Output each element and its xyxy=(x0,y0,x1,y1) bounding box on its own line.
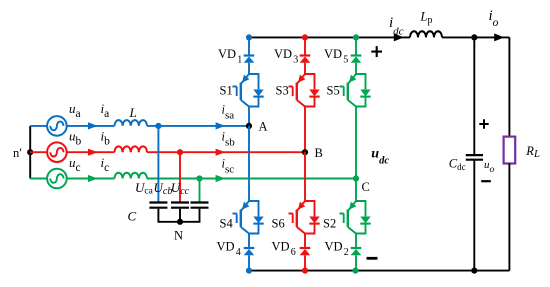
svg-text:VD2: VD2 xyxy=(325,240,349,259)
label - (u_o) xyxy=(481,180,491,182)
inductor L (phase b) xyxy=(115,146,147,152)
wire: leg3 upper xyxy=(355,37,357,74)
svg-text:RL: RL xyxy=(525,144,540,160)
arrow i_o xyxy=(494,33,504,41)
svg-text:ib: ib xyxy=(101,128,111,147)
diode VD1 xyxy=(244,56,255,63)
wire: C_dc branch lower xyxy=(473,160,475,271)
label + (u_o) xyxy=(479,119,488,128)
arrow i_c xyxy=(88,175,98,182)
svg-text:VD1: VD1 xyxy=(218,47,242,66)
wire: capacitor tap b xyxy=(179,152,181,201)
node B xyxy=(302,149,308,155)
wire: leg2 node B to S6 xyxy=(304,152,306,201)
svg-text:C: C xyxy=(362,180,370,194)
junction top bus C_dc xyxy=(471,34,477,40)
voltage source u_b xyxy=(47,142,67,162)
capacitor U_cb xyxy=(171,203,189,208)
junction top bus leg3 xyxy=(353,34,359,40)
diode VD5 xyxy=(351,56,362,63)
wire: capacitor tap a xyxy=(157,126,159,202)
junction on phase a xyxy=(155,123,161,129)
capacitor U_cc xyxy=(191,203,209,208)
wire: capacitor commons to N xyxy=(158,209,199,222)
svg-text:VD4: VD4 xyxy=(217,240,241,259)
svg-text:udc: udc xyxy=(371,146,389,166)
wire: leg2 lower xyxy=(304,234,306,271)
arrow i_sb xyxy=(216,149,226,156)
wire: leg1 node A to S4 xyxy=(248,126,250,201)
junction bottom bus leg3 xyxy=(352,268,358,274)
arrow i_sa xyxy=(216,122,226,129)
arrow i_dc xyxy=(394,33,404,41)
wire: stub to source a xyxy=(30,125,47,127)
wire: load branch lower xyxy=(508,164,510,271)
svg-text:isc: isc xyxy=(222,156,235,175)
wire: load branch upper xyxy=(508,37,510,136)
wire: left neutral rail xyxy=(29,126,31,179)
svg-text:Uca: Uca xyxy=(135,180,154,197)
svg-text:isa: isa xyxy=(222,103,235,122)
IGBT switch S6 xyxy=(289,201,320,234)
wire: stub to source b xyxy=(30,151,47,153)
svg-text:Cdc: Cdc xyxy=(449,157,466,173)
svg-text:S4: S4 xyxy=(220,217,234,231)
node n' xyxy=(27,149,33,155)
svg-text:B: B xyxy=(315,146,323,160)
arrow i_sc xyxy=(216,175,226,182)
wire: top DC bus xyxy=(249,36,509,38)
svg-text:S2: S2 xyxy=(323,217,336,231)
IGBT switch S2 xyxy=(340,201,371,234)
wire: leg1 lower xyxy=(248,234,250,271)
capacitor U_ca xyxy=(149,203,167,208)
junction on phase b xyxy=(177,149,183,155)
wire: leg3 node C to S2 xyxy=(355,179,357,202)
svg-text:C: C xyxy=(128,209,137,224)
diode VD2 xyxy=(351,248,362,255)
svg-text:VD5: VD5 xyxy=(324,47,348,66)
svg-text:io: io xyxy=(489,8,499,29)
wire: leg3 lower xyxy=(355,234,357,271)
wire: leg2 upper xyxy=(304,37,306,74)
wire: leg2 to node B xyxy=(304,107,306,153)
diode VD6 xyxy=(300,248,311,255)
wire: phase b line xyxy=(67,151,305,153)
svg-text:ic: ic xyxy=(101,155,110,174)
svg-text:Lp: Lp xyxy=(420,9,433,26)
svg-text:VD3: VD3 xyxy=(274,47,298,66)
wire: stub to source c xyxy=(30,178,47,180)
svg-text:uc: uc xyxy=(69,155,81,174)
svg-text:ub: ub xyxy=(69,128,82,147)
wire: phase c line xyxy=(67,178,356,180)
wire: bottom DC bus xyxy=(249,270,509,272)
svg-text:S3: S3 xyxy=(276,84,289,98)
wire: leg1 upper xyxy=(248,37,250,74)
capacitor C_dc xyxy=(466,155,483,160)
label + (dc bus) xyxy=(371,46,382,57)
junction top bus leg2 xyxy=(302,34,308,40)
node C xyxy=(353,175,359,181)
svg-text:ia: ia xyxy=(101,101,110,120)
svg-text:S5: S5 xyxy=(327,84,340,98)
junction bottom bus leg2 xyxy=(302,268,308,274)
wire: C_dc branch upper xyxy=(473,37,475,154)
node N xyxy=(177,219,183,225)
IGBT switch S3 xyxy=(289,74,320,107)
IGBT switch S5 xyxy=(340,74,371,107)
svg-text:VD6: VD6 xyxy=(272,240,296,259)
junction on phase c xyxy=(196,175,202,181)
svg-text:isb: isb xyxy=(222,130,236,149)
inductor L (phase a) xyxy=(115,120,147,126)
junction bottom bus leg1 xyxy=(246,268,252,274)
svg-text:A: A xyxy=(259,120,268,134)
svg-text:S6: S6 xyxy=(272,217,285,231)
voltage source u_c xyxy=(47,169,67,189)
svg-text:Ucb: Ucb xyxy=(154,180,173,197)
junction top bus leg1 xyxy=(246,34,252,40)
node A xyxy=(246,123,252,129)
svg-text:idc: idc xyxy=(389,15,404,38)
svg-text:L: L xyxy=(129,105,137,120)
wire: capacitor tap c xyxy=(199,179,201,202)
IGBT switch S4 xyxy=(233,201,264,234)
diode VD4 xyxy=(244,248,255,255)
wire: leg1 to node A xyxy=(248,107,250,126)
junction bottom bus C_dc xyxy=(471,268,477,274)
IGBT switch S1 xyxy=(233,74,264,107)
label - (dc bus) xyxy=(367,257,378,260)
inductor L (phase c) xyxy=(115,173,147,179)
svg-text:S1: S1 xyxy=(220,84,233,98)
arrow i_a xyxy=(88,122,98,129)
svg-text:uo: uo xyxy=(484,159,495,175)
svg-text:n′: n′ xyxy=(13,146,22,160)
wire: phase a line xyxy=(67,125,249,127)
resistor R_L xyxy=(504,137,516,164)
svg-text:ua: ua xyxy=(69,101,81,120)
svg-text:N: N xyxy=(174,229,183,243)
voltage source u_a xyxy=(47,116,67,136)
inductor L_p xyxy=(410,31,442,37)
arrow i_b xyxy=(88,149,98,156)
diode VD3 xyxy=(300,56,311,63)
wire: leg3 to node C xyxy=(355,107,357,179)
